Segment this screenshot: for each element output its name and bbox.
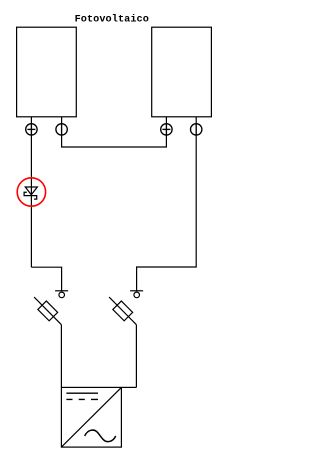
svg-text:Fotovoltaico: Fotovoltaico: [75, 14, 149, 26]
wire series link PV1 minus to PV2 plus: [62, 135, 167, 147]
inverter U1 body: [61, 387, 121, 447]
wire F1 to inverter: [60, 325, 62, 388]
terminal PV1 plus: [26, 124, 37, 135]
inverter U1 DC symbol solid line: [66, 392, 98, 394]
fuse F1 blade wire: [34, 297, 61, 325]
solar panel PV1: [17, 27, 77, 117]
wire PV2 minus stub: [195, 117, 197, 124]
wire PV1 branch to switch: [31, 267, 61, 291]
wire inverter top extension: [121, 386, 136, 388]
error marker red circle around D1: [17, 178, 45, 206]
wire PV1 plus stub: [30, 117, 32, 124]
fuse F1 cartridge: [38, 301, 58, 321]
disconnector Q2 contact circle: [134, 292, 140, 298]
diode D1 blocking schottky: [24, 187, 37, 199]
wire F2 to inverter: [135, 325, 137, 388]
terminal PV2 minus: [191, 124, 202, 135]
disconnector Q1 contact circle: [59, 292, 65, 298]
wire PV2 minus down: [137, 135, 197, 291]
disconnector Q2 fixed contact tick: [130, 290, 143, 292]
terminal PV2 plus: [161, 124, 172, 135]
fuse F2 blade wire: [109, 297, 136, 325]
inverter U1 DC symbol dashed line: [66, 398, 98, 400]
inverter U1 diagonal: [61, 387, 121, 447]
disconnector Q1 fixed contact tick: [55, 290, 68, 292]
terminal PV1 minus: [56, 124, 67, 135]
wire PV1 minus stub: [61, 117, 63, 124]
wire PV1 plus down: [30, 135, 32, 267]
solar panel PV2: [152, 27, 212, 117]
wire PV2 plus stub: [165, 117, 167, 124]
inverter U1 AC sine symbol: [85, 430, 116, 442]
fuse F2 cartridge: [113, 301, 133, 321]
